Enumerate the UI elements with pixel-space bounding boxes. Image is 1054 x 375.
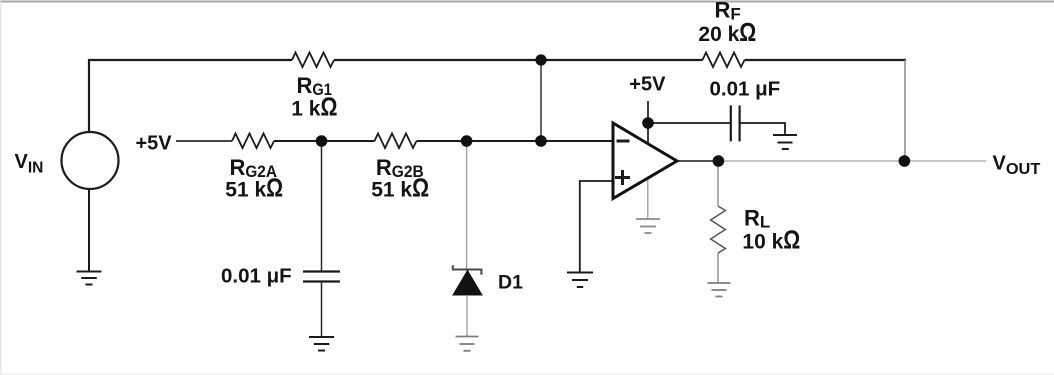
- op-amp U1 triangle: [613, 123, 677, 199]
- capacitor C2 0.01uF plates: [731, 105, 740, 141]
- svg-text:0.01 μF: 0.01 μF: [221, 265, 292, 288]
- resistor RL vertical: [711, 206, 726, 253]
- wire RF to right corner: [745, 59, 907, 61]
- wire VIN bottom to ground: [88, 189, 90, 272]
- wire node B down to diode D1: [466, 141, 468, 270]
- ground VIN: [77, 272, 102, 285]
- junction node A (RG2A/RG2B/C1): [316, 135, 328, 147]
- wire supply node to capacitor C2: [648, 122, 731, 124]
- wire op-amp power ground: [647, 175, 649, 219]
- junction node feedback/out: [899, 155, 911, 167]
- svg-text:+5V: +5V: [629, 74, 666, 96]
- wire RG2A to RG2B: [274, 140, 375, 142]
- diode D1 schottky cathode bar: [453, 265, 482, 274]
- wire vertical between top node and mid node: [540, 60, 542, 141]
- capacitor C1 0.01uF plates: [303, 272, 340, 282]
- svg-text:10 kΩ: 10 kΩ: [742, 227, 800, 255]
- wire C1 to ground: [321, 282, 323, 338]
- ground op-amp: [636, 219, 660, 233]
- wire node A down to capacitor C1: [321, 141, 323, 272]
- svg-text:D1: D1: [498, 272, 523, 294]
- frame bottom edge: [0, 373, 1054, 375]
- svg-text:51 kΩ: 51 kΩ: [225, 175, 283, 203]
- junction node supply: [642, 117, 654, 129]
- wire D1 to ground: [466, 295, 468, 337]
- svg-text:51 kΩ: 51 kΩ: [371, 175, 429, 203]
- junction node top (RG1/RF): [535, 54, 546, 65]
- wire output node to VOUT: [718, 160, 986, 162]
- junction node C (vertical link): [535, 135, 547, 147]
- resistor RG1: [292, 53, 334, 68]
- frame top edge: [0, 1, 1054, 3]
- wire op-amp plus input: [580, 181, 614, 273]
- resistor RG2B: [375, 134, 417, 149]
- wire op-amp output: [677, 160, 718, 162]
- diode D1 triangle: [453, 271, 482, 296]
- wire RL to ground: [717, 253, 719, 283]
- wire C2 to ground: [740, 123, 785, 135]
- ground C2: [773, 135, 797, 149]
- wire RG1 to RF: [334, 59, 703, 61]
- ground C1: [309, 337, 334, 351]
- op-amp minus symbol: [617, 140, 630, 143]
- junction node output: [713, 155, 725, 167]
- wire top horizontal left (VIN to RG1): [89, 60, 292, 132]
- op-amp plus symbol: [615, 170, 630, 185]
- wire right vertical drop to output node: [904, 60, 906, 161]
- svg-text:20 kΩ: 20 kΩ: [698, 19, 756, 47]
- wire output node down to RL: [717, 161, 719, 206]
- ground plus input: [567, 273, 593, 288]
- ground RL: [708, 283, 731, 297]
- wire +5V down to supply node: [647, 101, 649, 145]
- wire +5V to RG2A: [176, 140, 232, 142]
- svg-text:0.01 μF: 0.01 μF: [710, 78, 781, 101]
- svg-text:1 kΩ: 1 kΩ: [291, 94, 337, 122]
- frame left edge: [0, 1, 2, 375]
- resistor RG2A: [232, 134, 274, 149]
- wire RG2B to op-amp minus input: [417, 140, 615, 142]
- svg-text:+5V: +5V: [136, 133, 173, 155]
- junction node B (D1): [461, 135, 473, 147]
- ground D1: [456, 337, 479, 351]
- source VIN circle: [62, 132, 119, 189]
- resistor RF: [703, 53, 745, 68]
